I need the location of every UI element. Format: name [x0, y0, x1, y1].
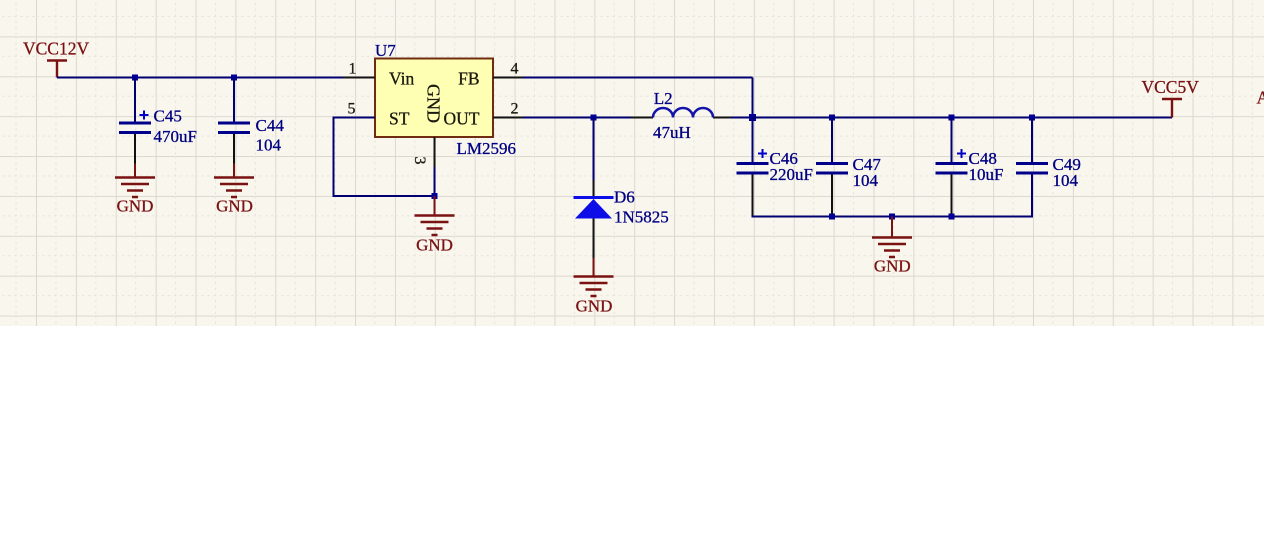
svg-text:1: 1	[349, 61, 357, 78]
capacitor C48	[936, 118, 968, 217]
svg-text:ST: ST	[389, 109, 410, 129]
pin 3 stub	[434, 137, 436, 167]
svg-text:D6: D6	[614, 188, 635, 207]
junction at pin3 / loop	[432, 193, 438, 199]
svg-text:4: 4	[511, 61, 519, 78]
junction at C48 top	[949, 115, 955, 121]
svg-text:3: 3	[411, 157, 428, 165]
svg-text:5: 5	[348, 101, 356, 118]
pin 1 stub	[343, 77, 375, 79]
svg-text:GND: GND	[416, 236, 453, 255]
svg-text:10uF: 10uF	[969, 165, 1004, 184]
svg-text:GND: GND	[874, 257, 911, 276]
junction at C47 top	[829, 115, 835, 121]
wire pin3 to loop	[434, 167, 436, 196]
svg-text:GND: GND	[576, 297, 613, 316]
capacitor C44	[218, 78, 250, 164]
junction at output node	[749, 114, 756, 121]
junction at C45 top	[132, 75, 138, 81]
junction at C48 bottom	[949, 214, 955, 220]
svg-text:Vin: Vin	[389, 69, 414, 89]
svg-text:2: 2	[511, 101, 519, 118]
svg-text:GND: GND	[216, 197, 253, 216]
svg-text:470uF: 470uF	[154, 127, 197, 146]
svg-text:GND: GND	[424, 84, 444, 123]
diode D6	[574, 118, 614, 259]
power symbol VCC5V	[1162, 99, 1182, 118]
svg-text:U7: U7	[375, 41, 396, 60]
capacitor C46	[737, 118, 769, 217]
wire ST loop left segment	[334, 117, 376, 119]
pin 2 stub	[493, 117, 523, 119]
wire FB vertical drop	[752, 78, 754, 118]
svg-text:104: 104	[853, 171, 879, 190]
IC U7 body	[375, 59, 493, 138]
pin 5 stub	[343, 117, 375, 119]
capacitor C49	[1016, 118, 1048, 217]
wire input rail	[57, 77, 375, 79]
ground under C44	[214, 164, 254, 198]
svg-text:C45: C45	[154, 107, 182, 126]
wire ST loop vertical	[333, 117, 335, 197]
junction at C44 top	[231, 75, 237, 81]
power symbol VCC12V	[47, 61, 67, 78]
wire VCC5V riser	[1171, 99, 1173, 118]
svg-text:104: 104	[1053, 171, 1079, 190]
svg-text:C44: C44	[256, 116, 285, 135]
capacitor C45	[119, 78, 151, 164]
wire OUT to inductor	[523, 117, 631, 119]
svg-text:FB: FB	[458, 69, 479, 89]
svg-text:GND: GND	[117, 197, 154, 216]
capacitor C47	[816, 118, 848, 217]
wire output rail	[753, 117, 1173, 119]
svg-text:VCC5V: VCC5V	[1142, 77, 1200, 97]
junction at C49 top	[1029, 115, 1035, 121]
pin 4 stub	[493, 77, 523, 79]
ground under output caps	[872, 217, 912, 258]
svg-text:VCC12V: VCC12V	[23, 39, 89, 59]
inductor L2	[631, 108, 731, 117]
junction at C47 bottom	[829, 214, 835, 220]
svg-text:LM2596: LM2596	[457, 139, 517, 158]
svg-text:47uH: 47uH	[653, 123, 691, 142]
svg-text:1N5825: 1N5825	[614, 208, 669, 227]
wire FB horizontal	[523, 77, 753, 79]
svg-text:A: A	[1257, 88, 1264, 108]
svg-text:OUT: OUT	[444, 109, 480, 129]
ground under D6	[574, 258, 614, 296]
wire bottom rail	[753, 175, 1033, 217]
wire ST loop bottom	[333, 195, 435, 197]
svg-text:220uF: 220uF	[770, 165, 813, 184]
ground under C45	[115, 164, 155, 198]
svg-text:L2: L2	[654, 89, 673, 108]
junction at GND stem	[889, 214, 895, 220]
ground under U7	[415, 196, 455, 235]
svg-text:104: 104	[256, 136, 282, 155]
junction at D6	[591, 115, 597, 121]
wire inductor to output node	[731, 117, 753, 119]
